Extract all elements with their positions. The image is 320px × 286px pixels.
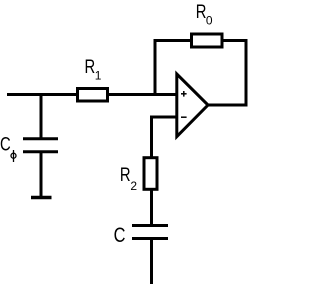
svg-text:R: R xyxy=(120,164,131,185)
svg-text:C: C xyxy=(0,134,11,155)
svg-text:1: 1 xyxy=(95,68,102,82)
svg-text:R: R xyxy=(85,56,96,77)
svg-text:C: C xyxy=(114,223,126,246)
svg-text:0: 0 xyxy=(206,14,213,28)
svg-text:R: R xyxy=(196,1,207,22)
svg-text:2: 2 xyxy=(130,179,137,193)
